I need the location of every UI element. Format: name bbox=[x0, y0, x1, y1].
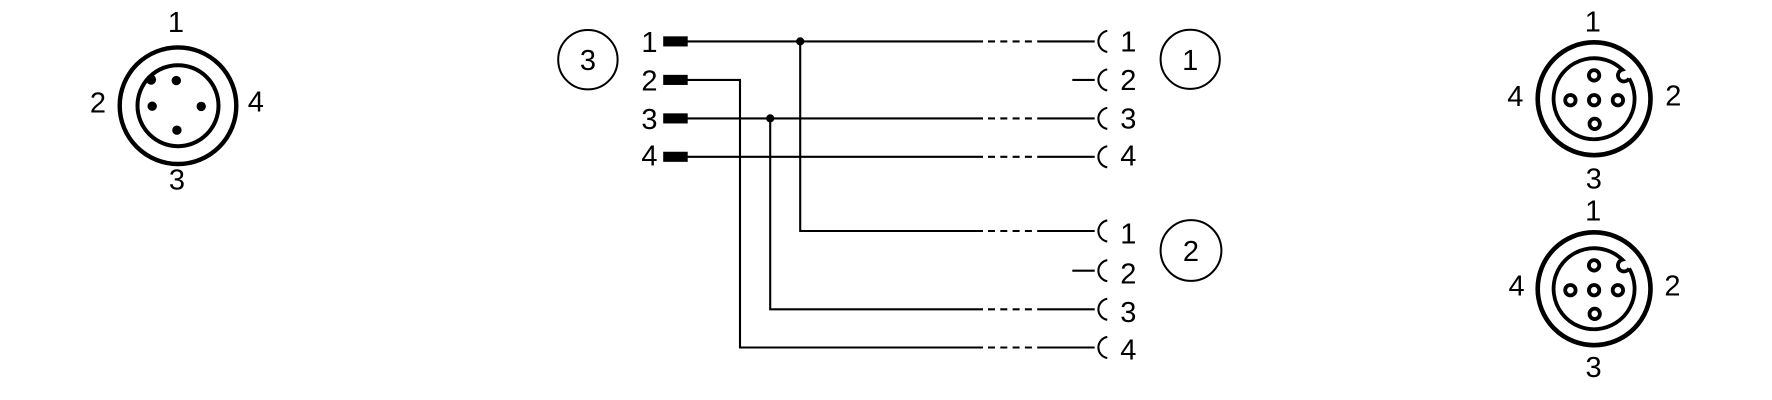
svg-text:1: 1 bbox=[1182, 45, 1198, 77]
svg-text:4: 4 bbox=[641, 140, 657, 172]
svg-text:1: 1 bbox=[641, 27, 657, 59]
svg-text:4: 4 bbox=[1120, 335, 1136, 367]
svg-text:1: 1 bbox=[1585, 196, 1601, 228]
svg-text:4: 4 bbox=[1507, 81, 1523, 113]
svg-text:3: 3 bbox=[1120, 104, 1136, 136]
svg-text:2: 2 bbox=[1120, 258, 1136, 290]
svg-text:3: 3 bbox=[641, 104, 657, 136]
svg-text:1: 1 bbox=[1120, 219, 1136, 251]
svg-text:4: 4 bbox=[1120, 141, 1136, 173]
svg-text:3: 3 bbox=[1120, 297, 1136, 329]
svg-text:1: 1 bbox=[1585, 6, 1601, 38]
svg-text:2: 2 bbox=[90, 87, 106, 119]
svg-text:3: 3 bbox=[169, 164, 185, 196]
svg-text:2: 2 bbox=[1664, 271, 1680, 303]
svg-text:2: 2 bbox=[641, 66, 657, 98]
svg-text:2: 2 bbox=[1120, 65, 1136, 97]
svg-text:2: 2 bbox=[1665, 80, 1681, 112]
svg-text:1: 1 bbox=[1120, 27, 1136, 59]
svg-text:4: 4 bbox=[1509, 271, 1525, 303]
svg-text:1: 1 bbox=[168, 7, 184, 39]
svg-text:3: 3 bbox=[1586, 163, 1602, 195]
svg-text:3: 3 bbox=[1586, 352, 1602, 384]
svg-text:4: 4 bbox=[248, 87, 264, 119]
svg-text:3: 3 bbox=[580, 45, 596, 77]
svg-text:2: 2 bbox=[1183, 236, 1199, 268]
